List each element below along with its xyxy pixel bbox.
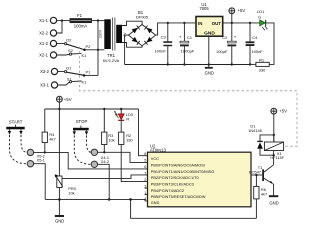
- ground symbol under U1: [205, 65, 214, 76]
- capacitor C1: [179, 23, 195, 65]
- regulator U1 7805: [196, 2, 223, 37]
- wire R1 to ground rail: [250, 63, 256, 65]
- svg-text:+5V: +5V: [279, 109, 287, 114]
- dashed actuator line K1: [80, 47, 298, 147]
- svg-text:6: 6: [144, 165, 146, 169]
- node R3 top: [103, 108, 105, 110]
- svg-text:8: 8: [144, 152, 146, 156]
- wire secondary top to bridge: [122, 21, 142, 25]
- svg-text:O1: O1: [66, 65, 72, 70]
- svg-text:C1: C1: [187, 35, 193, 40]
- node junction X1-1/X2-2: [61, 19, 63, 21]
- svg-text:S2: S2: [68, 48, 74, 53]
- pushbutton STOP: [73, 119, 89, 135]
- svg-text:HF115F: HF115F: [270, 155, 284, 160]
- wire bridge minus to ground rail: [125, 35, 129, 64]
- diode top-right: [146, 28, 152, 34]
- wire bridge plus to +V rail: [156, 23, 196, 35]
- node +5V / C2 junction: [231, 22, 233, 24]
- svg-text:PB1/PCINT1/AIN1/OC0B/INT0/MISO: PB1/PCINT1/AIN1/OC0B/INT0/MISO: [151, 170, 214, 174]
- contact S2 stub: [72, 52, 82, 55]
- wire X3-1 to S1: [58, 82, 70, 85]
- svg-text:330: 330: [259, 67, 266, 72]
- wire collector to relay: [273, 155, 275, 165]
- svg-text:10k: 10k: [68, 191, 74, 196]
- wire X1-1 to fuse: [57, 20, 70, 22]
- relay contact K1b common from X3-2: [58, 71, 65, 73]
- svg-text:C2: C2: [222, 35, 228, 40]
- wire X4-1 to MCU pin5: [98, 152, 148, 162]
- trimmer PR0: [55, 109, 77, 199]
- +5V supply symbol relay: [271, 108, 287, 142]
- svg-text:+: +: [179, 35, 182, 40]
- MCU U2 ATtiny13: [148, 143, 252, 206]
- svg-text:X3-2: X3-2: [40, 69, 50, 74]
- connector X2-2: [39, 30, 56, 36]
- wire X2-1 to S2: [57, 53, 70, 56]
- svg-text:X3-1: X3-1: [40, 83, 50, 88]
- node D1 top: [273, 134, 275, 136]
- svg-text:P2: P2: [86, 44, 92, 49]
- transistor T1 BC547: [249, 165, 274, 184]
- dashed wire START right leg to X5-2: [21, 135, 27, 152]
- relay contact K1b blade: [67, 72, 84, 75]
- wire emitter to ground: [272, 184, 275, 196]
- svg-text:100nF: 100nF: [154, 48, 166, 53]
- node C4 top: [249, 22, 251, 24]
- svg-text:F1: F1: [77, 13, 83, 18]
- connector X3-1: [40, 82, 57, 88]
- wire X2-2 up to X1-1 line: [57, 21, 62, 33]
- wire vertical P2/P1 common: [97, 21, 99, 76]
- wire U1 GND pin: [208, 36, 210, 64]
- node C3 top: [167, 22, 169, 24]
- node LD3 top: [120, 108, 122, 110]
- node R3 bottom: [103, 151, 105, 153]
- wire +5V rail to pin 8: [139, 109, 148, 156]
- diode top-left: [132, 28, 138, 34]
- connector X2-1: [39, 52, 56, 58]
- node R6 ground branch: [129, 198, 132, 201]
- svg-text:BC547: BC547: [249, 169, 261, 174]
- svg-text:X5-1: X5-1: [37, 158, 45, 163]
- svg-text:PB3/PCINT3/CLKI/ADC3: PB3/PCINT3/CLKI/ADC3: [151, 182, 194, 186]
- wire X5-2 to MCU pin6: [34, 152, 148, 169]
- wire primary bottom: [98, 49, 104, 51]
- wire X5-1 to ground: [34, 164, 46, 200]
- resistor R4: [42, 109, 56, 152]
- svg-text:GND: GND: [269, 201, 278, 206]
- svg-text:10k: 10k: [108, 137, 114, 142]
- svg-text:K1: K1: [82, 80, 88, 85]
- svg-text:7: 7: [144, 172, 146, 176]
- ground rail top section: [125, 64, 250, 66]
- node P2 junction: [97, 49, 99, 51]
- node R4 bottom: [44, 151, 46, 153]
- svg-text:PB4/PCINT4/ADC2: PB4/PCINT4/ADC2: [151, 189, 184, 193]
- node pot bottom: [58, 198, 61, 201]
- svg-text:OUT: OUT: [212, 21, 222, 26]
- contact S1 stub: [72, 80, 82, 83]
- capacitor C2: [216, 23, 237, 65]
- svg-text:LD1: LD1: [257, 9, 265, 14]
- svg-text:X2-2: X2-2: [39, 31, 49, 36]
- relay coil K1: [264, 142, 284, 160]
- capacitor C4: [246, 23, 264, 65]
- svg-text:1000µF: 1000µF: [181, 48, 195, 53]
- svg-text:VCC: VCC: [151, 157, 159, 161]
- +5V rail bottom section: [45, 108, 139, 110]
- connector X1-2: [39, 40, 56, 46]
- wire coil bottom to collector: [273, 151, 275, 156]
- connector X4-2: [91, 161, 97, 167]
- svg-text:X1-2: X1-2: [39, 41, 49, 46]
- svg-text:DF005: DF005: [136, 15, 149, 20]
- svg-text:O2: O2: [66, 38, 72, 43]
- node C3 bottom: [167, 63, 169, 65]
- connector X5-2: [27, 149, 33, 155]
- dashed wire START left leg to X5-1: [10, 135, 28, 164]
- svg-text:R: R: [126, 116, 129, 121]
- wire X4-2 to ground rail: [98, 164, 110, 199]
- svg-text:G: G: [258, 14, 261, 19]
- pin stub 1: [145, 194, 148, 196]
- node D1/coil bottom: [272, 154, 274, 156]
- svg-text:4k7: 4k7: [261, 191, 267, 196]
- pin stub 3: [145, 187, 148, 189]
- wire wiper to MCU pin2: [62, 175, 148, 179]
- svg-text:R1: R1: [259, 57, 265, 62]
- svg-text:GND: GND: [205, 70, 214, 75]
- ground symbol bottom right: [269, 196, 279, 205]
- wire fuse to transformer primary: [94, 20, 105, 22]
- wire LED cathode down to R1: [266, 23, 274, 65]
- svg-text:IN: IN: [198, 21, 202, 26]
- svg-text:X4-2: X4-2: [101, 159, 109, 164]
- svg-text:4k7: 4k7: [49, 137, 55, 142]
- wire P1 to junction: [84, 74, 98, 76]
- node R6 top: [255, 174, 257, 176]
- svg-text:7805: 7805: [199, 6, 209, 11]
- bridge rectifier B1 DF005: [129, 10, 156, 46]
- svg-text:+: +: [234, 34, 237, 39]
- node R1/C4 ground: [249, 63, 251, 65]
- LED LD3: [114, 109, 133, 121]
- resistor R6: [254, 175, 267, 218]
- diode bottom-right: [146, 37, 152, 43]
- connector X1-1: [39, 17, 56, 23]
- ground symbol bottom left: [55, 199, 64, 223]
- svg-text:P1: P1: [86, 70, 92, 75]
- wire secondary bottom to bridge: [122, 43, 142, 48]
- capacitor C3: [154, 23, 172, 65]
- resistor R1: [256, 57, 269, 72]
- svg-text:GND: GND: [55, 219, 64, 224]
- wire P2 to junction: [85, 49, 99, 51]
- node C2 bottom: [231, 63, 233, 65]
- svg-text:4: 4: [144, 197, 146, 201]
- node U1 gnd: [208, 63, 210, 65]
- node C1 bottom: [183, 63, 185, 65]
- svg-text:330: 330: [126, 137, 133, 142]
- svg-text:100µF: 100µF: [216, 49, 228, 54]
- svg-text:6V/1.2VA: 6V/1.2VA: [103, 58, 120, 63]
- wire MCU pin7 to T1 base: [251, 174, 262, 176]
- connector X5-1: [27, 161, 33, 167]
- node P2 terminal: [83, 49, 86, 52]
- node C1 top: [183, 22, 185, 24]
- svg-text:2: 2: [144, 178, 146, 182]
- LED LD1: [257, 9, 268, 30]
- svg-text:PB0/PCINT0/AIN0/OC0A/MOSI: PB0/PCINT0/AIN0/OC0A/MOSI: [151, 163, 205, 167]
- wire U1 out rail: [223, 22, 260, 24]
- transformer TR1: [103, 18, 127, 63]
- svg-text:+5V: +5V: [64, 97, 72, 102]
- fuse F1: [70, 13, 94, 29]
- svg-text:GND: GND: [204, 31, 215, 37]
- svg-text:S1: S1: [67, 76, 73, 81]
- wire coil top: [273, 135, 275, 142]
- svg-text:1N4148: 1N4148: [248, 128, 262, 133]
- +5V supply symbol top: [229, 8, 245, 23]
- svg-text:+5V: +5V: [238, 8, 246, 13]
- node fuse output junction: [97, 19, 99, 21]
- svg-text:X2-1: X2-1: [39, 53, 49, 58]
- svg-text:ATtiny13: ATtiny13: [150, 148, 167, 153]
- diode D1 1N4148: [248, 124, 274, 156]
- relay contact K1a blade: [67, 44, 84, 49]
- wire R6 ground return: [131, 199, 257, 218]
- svg-text:100mA: 100mA: [74, 24, 88, 29]
- diode bottom-left: [132, 37, 138, 43]
- svg-text:100nF: 100nF: [251, 49, 263, 54]
- svg-text:PB2/PCINT2/SCK/ADC1/T0: PB2/PCINT2/SCK/ADC1/T0: [151, 176, 199, 180]
- svg-text:PB5/PCINT5/RESET/ADC0/DW: PB5/PCINT5/RESET/ADC0/DW: [151, 195, 206, 199]
- node P1 terminal: [83, 74, 86, 77]
- svg-text:5: 5: [144, 159, 146, 163]
- resistor R2: [119, 120, 148, 181]
- node +5V stem: [58, 108, 60, 110]
- svg-text:START: START: [9, 120, 23, 125]
- ground rail bottom: [45, 199, 147, 201]
- resistor R3: [102, 109, 115, 152]
- connector X3-2: [40, 68, 57, 74]
- svg-text:GND: GND: [151, 201, 160, 205]
- dashed wire STOP right leg to X4-1: [87, 135, 92, 152]
- connector X4-1: [91, 149, 97, 155]
- svg-text:STOP: STOP: [76, 119, 88, 124]
- svg-text:C4: C4: [252, 35, 258, 40]
- relay contact K1a common from X1-2: [57, 43, 65, 45]
- svg-text:230V: 230V: [99, 29, 103, 38]
- dashed wire STOP left leg to X4-2: [74, 135, 91, 164]
- +5V supply symbol bottom left: [57, 96, 72, 109]
- svg-text:X1-1: X1-1: [39, 18, 49, 23]
- svg-text:C3: C3: [161, 35, 167, 40]
- pushbutton START: [6, 120, 24, 135]
- node X4-2 ground: [108, 198, 111, 201]
- svg-text:K1: K1: [82, 53, 88, 58]
